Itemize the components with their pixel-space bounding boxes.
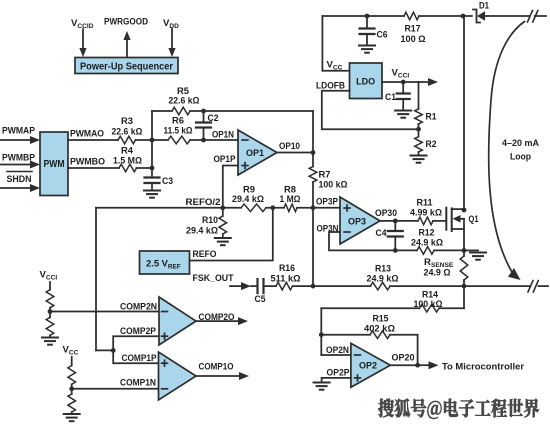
resistor divider VCC top (68, 357, 76, 389)
svg-text:1 MΩ: 1 MΩ (280, 194, 301, 205)
net label VCCID (71, 18, 94, 30)
svg-text:REFO: REFO (193, 249, 217, 260)
label RSENSE value (424, 257, 454, 279)
wire REFO/2 rail left (96, 207, 241, 209)
svg-text:R2: R2 (426, 139, 437, 150)
wire PWMAP input arrow (0, 136, 40, 144)
resistor R17 (404, 12, 419, 20)
net label VCC at divider (63, 345, 79, 357)
capacitor C1 (397, 82, 410, 110)
svg-text:100 Ω: 100 Ω (401, 34, 426, 45)
svg-text:R3: R3 (121, 116, 133, 127)
wire FSK_OUT with arrow (230, 282, 256, 290)
wire R13 to RSENSE node (390, 285, 464, 287)
ground below R10 (215, 238, 231, 245)
svg-text:4–20 mA: 4–20 mA (502, 138, 539, 149)
svg-text:LDO: LDO (356, 77, 375, 88)
comparator COMP1 (159, 352, 197, 400)
net label COMP2O (199, 312, 235, 323)
resistor R16 (276, 282, 293, 290)
resistor R2 (415, 129, 423, 154)
svg-text:24.9 kΩ: 24.9 kΩ (367, 274, 399, 285)
label R11 value (410, 198, 442, 219)
net label OP3P (316, 197, 339, 208)
resistor R1 (415, 82, 423, 129)
wire OP2N input (321, 354, 351, 356)
junction OP20 node (415, 363, 420, 368)
svg-text:COMP2P: COMP2P (120, 326, 157, 337)
capacitor C3 (145, 178, 160, 190)
resistor divider VCC bottom (68, 389, 76, 413)
svg-text:Power-Up Sequencer: Power-Up Sequencer (80, 62, 173, 73)
wire OP3 output (380, 220, 418, 222)
svg-text:Loop: Loop (510, 152, 531, 163)
svg-text:PWMBO: PWMBO (70, 157, 105, 168)
svg-text:C6: C6 (377, 30, 388, 41)
junction OP3P node (311, 205, 316, 210)
wire PWRGOOD arrow out of sequencer (123, 31, 130, 58)
wire COMP2O output arrow (196, 317, 248, 325)
svg-text:OP30: OP30 (375, 208, 397, 219)
wire R17 to D1 node (419, 15, 463, 17)
resistor R4 (119, 164, 137, 172)
wire REFO/2 rail to comparator branch (95, 208, 97, 351)
junction R15 tap (319, 332, 324, 337)
net label PWRGOOD (104, 16, 148, 27)
net label OP30 (375, 208, 397, 219)
resistor R7 (309, 153, 317, 208)
label C4 (376, 228, 388, 239)
capacitor C4 (388, 221, 403, 251)
label R9 value (232, 185, 264, 206)
svg-text:100 kΩ: 100 kΩ (414, 299, 443, 310)
svg-text:PWMAP: PWMAP (2, 126, 36, 137)
svg-text:29.4 kΩ: 29.4 kΩ (186, 226, 218, 237)
svg-text:OP10: OP10 (279, 141, 300, 152)
svg-text:OP1N: OP1N (212, 130, 234, 141)
svg-text:C4: C4 (376, 228, 388, 239)
net label OP3N (317, 223, 339, 234)
wire R3 to node A (136, 139, 169, 141)
net label OP20 (392, 352, 415, 363)
svg-text:COMP1O: COMP1O (199, 362, 234, 373)
junction VCCI divider tap (48, 309, 53, 314)
net label SHDN (active low) (7, 172, 33, 186)
label R10 value (186, 215, 218, 237)
label R14 value (414, 289, 443, 310)
label R2 (426, 139, 437, 150)
net label PWMAO (70, 128, 104, 139)
svg-text:R17: R17 (405, 24, 421, 35)
op-amp OP2 (351, 343, 390, 387)
svg-text:PWM: PWM (44, 159, 65, 170)
net label REFO/2 (186, 197, 221, 208)
label R13 value (367, 264, 399, 285)
label C5 (255, 294, 267, 305)
svg-text:511 kΩ: 511 kΩ (271, 273, 301, 284)
svg-text:OP1: OP1 (246, 148, 265, 159)
label R4 value (113, 146, 142, 167)
break symbol bottom right (528, 281, 548, 293)
block Power-Up Sequencer (75, 58, 178, 74)
resistor RSENSE (460, 250, 468, 286)
junction comparator ref node (111, 348, 116, 353)
label 4-20 mA Loop (502, 138, 539, 163)
junction R1-R2 node (416, 127, 421, 132)
ground below C3 (144, 191, 160, 198)
wire node A to R5 (152, 110, 172, 112)
resistor divider VCCI top (46, 282, 54, 312)
label C1 (385, 92, 397, 103)
svg-text:PWMAO: PWMAO (70, 128, 104, 139)
resistor R9 (241, 204, 266, 212)
wire node A vertical (151, 111, 153, 176)
svg-text:4.99 kΩ: 4.99 kΩ (410, 208, 442, 219)
svg-text:OP2P: OP2P (327, 367, 351, 378)
wire VCC into LDO (322, 16, 349, 71)
net label COMP1N (120, 377, 156, 388)
junction C6 top (365, 14, 370, 19)
resistor divider VCCI bottom (46, 312, 54, 337)
wire COMP1P input (113, 350, 158, 363)
junction bottom rail / OP3P branch (311, 284, 316, 289)
svg-text:R10: R10 (202, 215, 218, 226)
loop arc 4-20 mA (489, 22, 525, 281)
svg-text:Q1: Q1 (469, 214, 480, 225)
comparator COMP2 (159, 297, 196, 345)
net label LDOFB (316, 80, 345, 91)
svg-text:OP3P: OP3P (316, 197, 339, 208)
resistor R11 (418, 217, 433, 225)
label R5 value (169, 86, 200, 107)
net label COMP1P (122, 353, 158, 364)
junction node A top (150, 138, 155, 143)
label C6 (377, 30, 388, 41)
wire R9 to R8 (266, 207, 284, 209)
wire feedback vertical to OP10 (312, 111, 314, 153)
wire PWMBP input arrow (0, 161, 40, 169)
net label REFO (193, 249, 217, 260)
resistor R12 (395, 247, 464, 255)
wire OP2P to ground (322, 378, 351, 382)
wire REFO (190, 208, 273, 261)
label R12 value (411, 228, 443, 249)
svg-text:LDOFB: LDOFB (316, 80, 345, 91)
break symbol top right (528, 11, 547, 23)
junction D1 node (461, 14, 466, 19)
wire to source ground (464, 249, 478, 251)
net label VCCI at LDO output (392, 68, 410, 80)
op-amp OP1 (238, 130, 277, 175)
wire COMP1O output arrow (196, 372, 249, 380)
junction C4 bottom (393, 248, 398, 253)
net label OP2N (326, 345, 349, 356)
svg-text:OP1P: OP1P (214, 154, 237, 165)
svg-text:22.6 kΩ: 22.6 kΩ (169, 96, 200, 107)
label C2 (208, 113, 219, 124)
net label PWMAP (2, 126, 36, 137)
svg-text:100 kΩ: 100 kΩ (319, 180, 348, 191)
resistor R13 (370, 282, 390, 290)
junction RSENSE bottom (462, 284, 467, 289)
resistor R6 (168, 136, 190, 144)
wire R6 to OP1N (190, 139, 238, 141)
wire OP1P to REFO/2 rail (223, 166, 238, 208)
wire R5 to OP1 output branch (190, 110, 313, 112)
wire COMP2N input (50, 311, 159, 313)
net label COMP2N (120, 301, 157, 312)
label R7 value (319, 170, 348, 191)
diode D1 (zener) (464, 10, 529, 23)
wire bottom rail to loop break (464, 285, 530, 287)
junction C4 top (393, 219, 398, 224)
svg-text:C5: C5 (255, 294, 267, 305)
svg-text:FSK_OUT: FSK_OUT (193, 273, 234, 284)
svg-text:To Microcontroller: To Microcontroller (442, 361, 524, 372)
net label OP10 (279, 141, 300, 152)
svg-text:C3: C3 (162, 176, 173, 187)
label R8 value (280, 185, 301, 206)
ground below C6 (359, 46, 375, 53)
svg-text:11.5 kΩ: 11.5 kΩ (164, 126, 193, 137)
wire OP1 output (277, 152, 313, 154)
resistor R15 (321, 331, 417, 365)
junction REFO tap (270, 205, 275, 210)
wire R16 to OP3P branch (293, 285, 371, 287)
wire COMP2P input (113, 336, 159, 350)
net label OP1P (214, 154, 237, 165)
wire comparator ref branch (96, 349, 113, 351)
resistor R5 (172, 107, 190, 115)
svg-text:D1: D1 (479, 0, 490, 11)
svg-text:24.9 Ω: 24.9 Ω (424, 268, 451, 279)
wire C6 to R17 (367, 15, 404, 17)
block PWM U-PWM (40, 132, 68, 196)
svg-text:22.6 kΩ: 22.6 kΩ (112, 127, 143, 138)
net label PWMBO (70, 157, 105, 168)
resistor R10 (219, 208, 227, 237)
wire main loop vertical (drain to D1 node) (463, 16, 465, 209)
resistor R8 (284, 204, 297, 212)
wire SHDN input arrow (0, 184, 40, 192)
wire OP3N feedback (329, 232, 395, 250)
wire PWMBO from PWM to R4 (68, 167, 119, 169)
svg-text:PWRGOOD: PWRGOOD (104, 16, 148, 27)
svg-text:OP20: OP20 (392, 352, 415, 363)
capacitor C6 (360, 16, 375, 45)
wire OP20 arrow to microcontroller (418, 361, 439, 369)
svg-text:REFO/2: REFO/2 (186, 197, 221, 208)
wire R4 to node A (137, 167, 153, 169)
net label VDD (163, 18, 179, 30)
ground below VCCI divider (42, 338, 58, 345)
junction C2 top (201, 109, 206, 114)
junction Q1 drain (462, 208, 467, 213)
resistor R3 (118, 136, 136, 144)
ground below C1 (395, 111, 411, 118)
svg-text:24.9 kΩ: 24.9 kΩ (411, 237, 443, 248)
label R6 value (164, 116, 193, 137)
net label VCC at LDO (327, 60, 343, 72)
watermark text (378, 399, 539, 419)
ground at OP2P (314, 383, 330, 390)
ground at Q1 source (470, 253, 486, 260)
resistor R14 (321, 304, 464, 312)
svg-text:OP3: OP3 (348, 217, 366, 228)
net label OP1N (212, 130, 234, 141)
wire LDOFB to feedback divider (322, 91, 419, 130)
wire top rail from VCC corner (322, 15, 367, 17)
wire OP2 output (390, 364, 417, 366)
net label COMP1O (199, 362, 234, 373)
net label FSK_OUT (193, 273, 234, 284)
block LDO U-LDO (350, 63, 383, 99)
label C3 (162, 176, 173, 187)
svg-text:1.5 MΩ: 1.5 MΩ (113, 156, 142, 167)
svg-text:SHDN: SHDN (7, 174, 32, 185)
svg-text:29.4 kΩ: 29.4 kΩ (232, 194, 264, 205)
capacitor C2 (196, 111, 211, 140)
wire VCCI output arrow (382, 78, 438, 86)
junction OP10 node (311, 150, 316, 155)
ground below VCC divider (64, 414, 80, 421)
label R3 value (112, 116, 143, 138)
junction node A bottom (150, 166, 155, 171)
svg-text:COMP1N: COMP1N (120, 377, 156, 388)
wire OP3P junction to bottom rail (312, 208, 314, 286)
net label OP2P (327, 367, 351, 378)
wire VCCID arrow into sequencer (79, 29, 86, 57)
wire RSENSE node down to R14 rail (463, 286, 465, 308)
wire COMP1N input (72, 388, 159, 390)
wire R11 to Q1 gate (433, 220, 446, 222)
label R16 value (271, 263, 301, 284)
junction OP1N node (201, 138, 206, 143)
wire VDD arrow into sequencer (168, 29, 175, 57)
label To Microcontroller (442, 361, 524, 372)
label R17 value (401, 24, 426, 46)
svg-text:R1: R1 (426, 112, 438, 123)
svg-text:C1: C1 (385, 92, 397, 103)
junction C1 top (401, 80, 406, 85)
svg-text:COMP1P: COMP1P (122, 353, 158, 364)
op-amp OP3 (340, 197, 380, 244)
capacitor C5 (258, 279, 277, 293)
ground below R2 (411, 156, 427, 163)
svg-text:C2: C2 (208, 113, 219, 124)
junction VCC divider tap (69, 386, 74, 391)
net label COMP2P (120, 326, 157, 337)
svg-text:OP2: OP2 (359, 361, 377, 372)
net label PWMBP (2, 153, 36, 164)
label R1 (426, 112, 438, 123)
wire R8 to OP3P (297, 207, 340, 209)
block 2.5V reference U-VREF (140, 251, 190, 274)
wire PWMAO from PWM to R3 (68, 139, 118, 141)
transistor Q1 (NMOS) (446, 208, 464, 251)
wire R14 rail down to OP2N (320, 308, 322, 355)
label Q1 (469, 214, 480, 225)
svg-text:402 kΩ: 402 kΩ (364, 324, 395, 335)
junction OP1P tap (220, 205, 225, 210)
label D1 (479, 0, 490, 11)
net label VCCI at divider (40, 270, 58, 282)
label R15 value (364, 314, 395, 335)
junction Q1 source node (462, 248, 467, 253)
